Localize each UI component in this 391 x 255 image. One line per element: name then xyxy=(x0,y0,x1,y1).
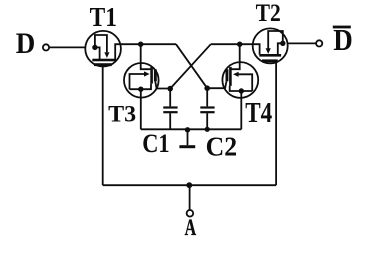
svg-text:C1: C1 xyxy=(142,128,169,158)
svg-text:D: D xyxy=(333,22,353,57)
svg-text:D: D xyxy=(16,27,36,60)
svg-text:A: A xyxy=(185,215,197,240)
svg-text:T1: T1 xyxy=(90,2,117,32)
svg-text:C2: C2 xyxy=(206,132,238,162)
svg-text:T2: T2 xyxy=(256,0,281,27)
svg-text:T3: T3 xyxy=(108,101,136,127)
svg-text:T4: T4 xyxy=(245,98,272,129)
